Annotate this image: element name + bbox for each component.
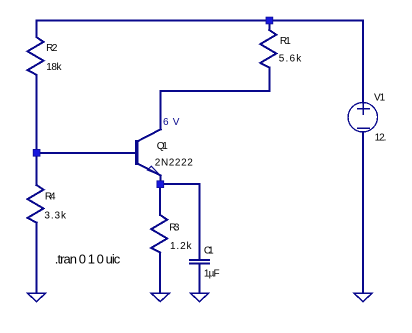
svg-text:.tran 0 1 0 uic: .tran 0 1 0 uic: [55, 252, 121, 267]
svg-text:2N2222: 2N2222: [155, 158, 193, 169]
svg-text:C1: C1: [204, 246, 214, 257]
svg-text:1.2k: 1.2k: [170, 241, 193, 252]
svg-text:12.: 12.: [375, 133, 387, 144]
svg-text:1µF: 1µF: [204, 269, 220, 280]
svg-text:V1: V1: [374, 93, 386, 104]
svg-text:R1: R1: [280, 36, 291, 47]
svg-text:18k: 18k: [46, 62, 62, 73]
svg-text:3.3k: 3.3k: [44, 210, 67, 221]
svg-text:R4: R4: [45, 191, 56, 202]
svg-text:R2: R2: [46, 43, 58, 54]
svg-text:6 V: 6 V: [163, 117, 180, 128]
svg-text:R3: R3: [169, 222, 180, 233]
svg-text:Q1: Q1: [157, 141, 168, 152]
svg-text:5.6k: 5.6k: [279, 53, 303, 64]
